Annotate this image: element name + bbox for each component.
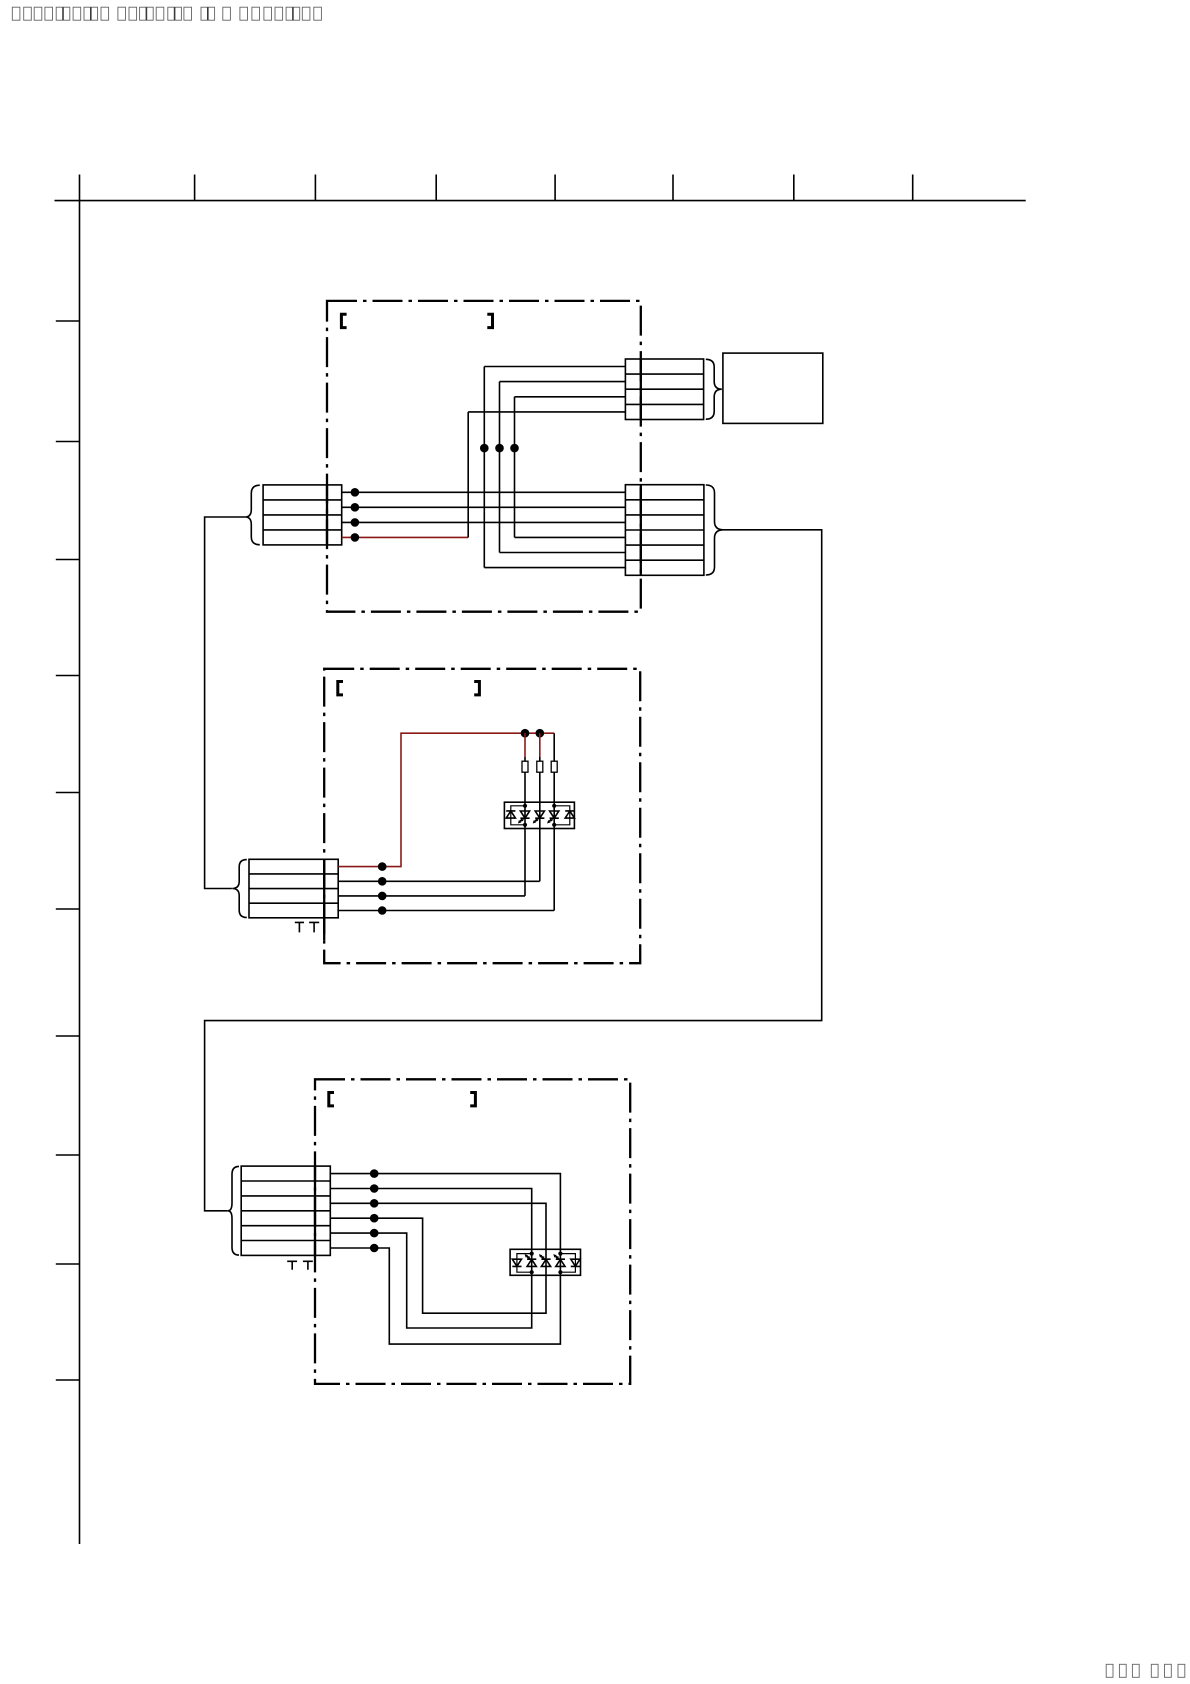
title missing-glyph boxes (top-left header text) bbox=[12, 7, 321, 20]
resistor R2 bbox=[537, 761, 543, 772]
ground T2 under CN5 bbox=[303, 1261, 313, 1269]
diode D2 (up, on right loop) bbox=[565, 811, 574, 818]
wires resistors down to LED block bbox=[525, 772, 554, 802]
block 2 dash-dot border bbox=[324, 669, 640, 963]
node dot on C bbox=[495, 444, 504, 453]
connector CN5 (block 3 left) bbox=[241, 1166, 330, 1255]
diode D3 (down, on left loop) bbox=[512, 1259, 521, 1266]
block 2 left lenticular bracket bbox=[338, 682, 343, 695]
block 2 right lenticular bracket bbox=[474, 682, 479, 695]
wire CN2 row1 horizontal bbox=[484, 366, 625, 368]
wire CN4 row2 to column c2 bbox=[338, 829, 540, 882]
page footer missing-glyph boxes (bottom-right) bbox=[1106, 1664, 1185, 1677]
wire CN5 row4 to column c2 bottom bbox=[330, 1218, 546, 1313]
LED array box (block 2) bbox=[504, 802, 574, 828]
node dot row3 bbox=[351, 518, 360, 527]
wire from CN1 brace to block 2 bbox=[205, 517, 246, 889]
ground T1 under CN5 bbox=[287, 1261, 297, 1269]
wire to CN3 cell6 bbox=[484, 567, 625, 569]
loop junction dots bbox=[530, 1252, 534, 1256]
wire CN5 row1 to column c3 top bbox=[330, 1174, 560, 1250]
brace right of CN3 bbox=[706, 485, 724, 575]
LED2 arrows bbox=[535, 818, 539, 821]
top ruler line bbox=[55, 200, 1026, 202]
ground T2 under CN4 bbox=[309, 922, 319, 932]
black stub ends above resistors bbox=[525, 733, 554, 761]
wire CN5 row3 to column c2 top bbox=[330, 1203, 546, 1249]
node dot CN5 row2 bbox=[370, 1184, 379, 1193]
right parallel-diode loop bbox=[560, 1254, 575, 1273]
connector CN1 (block 1 left) bbox=[263, 485, 342, 545]
block 3 right lenticular bracket bbox=[470, 1093, 475, 1106]
wire CN1 row3 to CN3 cell3 bbox=[342, 521, 626, 523]
node dot on red bus c2 bbox=[536, 729, 545, 738]
connector CN2 (block 1 right top) bbox=[625, 359, 703, 420]
node dot on B bbox=[480, 444, 489, 453]
top ruler ticks bbox=[195, 175, 913, 201]
wire vertical D (CN2 row3 down to CN3 cell4) bbox=[514, 397, 516, 538]
wire CN2 row3 horizontal bbox=[515, 396, 626, 398]
block 1 dash-dot border bbox=[327, 301, 641, 612]
box U1 (top right) bbox=[723, 353, 823, 423]
node dot CN5 row4 bbox=[370, 1214, 379, 1223]
wire CN5 row5 to column c1 bottom bbox=[330, 1233, 531, 1328]
node dot row4 bbox=[351, 533, 360, 542]
brace left of CN4 bbox=[232, 860, 247, 918]
brace left of CN1 bbox=[245, 485, 260, 545]
wire CN4 row3 to column c1 bbox=[338, 829, 525, 896]
LED array box (block 3) bbox=[510, 1249, 580, 1275]
block 2 border solid overlay through connector bbox=[323, 859, 325, 940]
left ruler line bbox=[79, 175, 81, 1545]
node dot CN4 row1 bbox=[378, 862, 387, 871]
LED2 (down) bbox=[535, 811, 544, 818]
column wires through LED box bbox=[525, 802, 554, 828]
block 1 left lenticular bracket bbox=[341, 314, 346, 327]
wire CN1 row2 to CN3 cell2 bbox=[342, 506, 626, 508]
connector CN3 (block 1 right bottom) bbox=[625, 485, 704, 576]
wire vertical B (CN2 row1 down to CN3 cell6) bbox=[483, 367, 485, 568]
brace left of CN5 bbox=[228, 1166, 239, 1255]
brace right of CN2 bbox=[706, 359, 722, 419]
LED4 arrows bbox=[527, 1256, 531, 1259]
wire CN5 row6 to column c3 bottom bbox=[330, 1248, 560, 1344]
column wires through LED box bbox=[532, 1249, 561, 1275]
LED5 arrows bbox=[541, 1256, 545, 1259]
wire CN5 row2 to column c1 top bbox=[330, 1189, 531, 1250]
red stub to resistor R1 bbox=[524, 733, 526, 757]
LED1 arrows bbox=[520, 818, 524, 821]
node dot on red bus c1 bbox=[521, 729, 530, 738]
right parallel-diode loop bbox=[554, 806, 570, 825]
wire CN2 row2 horizontal bbox=[500, 381, 626, 383]
block 3 border solid overlay through connector bbox=[314, 1166, 316, 1255]
ground T1 under CN4 bbox=[295, 922, 304, 932]
node dot CN5 row3 bbox=[370, 1199, 379, 1208]
block 1 border solid overlay through left connector bbox=[326, 485, 328, 545]
node dot CN4 row3 bbox=[378, 892, 387, 901]
diode D1 (up, on left loop) bbox=[506, 811, 515, 818]
LED3 arrows bbox=[549, 818, 553, 821]
block 3 left lenticular bracket bbox=[329, 1093, 334, 1106]
wire vertical C (CN2 row2 down to CN3 cell5) bbox=[499, 382, 501, 553]
wire to CN3 cell4 bbox=[515, 536, 626, 538]
wire CN4 row4 to column c3 bbox=[338, 829, 554, 911]
node dot CN4 row4 bbox=[378, 906, 387, 915]
wire CN1 row1 to CN3 cell1 bbox=[342, 491, 626, 493]
LED5 (up) bbox=[541, 1259, 550, 1266]
wire to CN3 cell5 bbox=[500, 552, 626, 554]
block 1 right lenticular bracket bbox=[487, 314, 492, 327]
wire CN2 row4 horizontal bbox=[468, 411, 625, 413]
block 1 border solid overlay through right bottom connector bbox=[640, 485, 642, 576]
LED6 (up) bbox=[556, 1259, 565, 1266]
left parallel-diode loop bbox=[517, 1254, 532, 1273]
node dot CN5 row1 bbox=[370, 1169, 379, 1178]
LED4 (up) bbox=[527, 1259, 536, 1266]
LED1 (down) bbox=[520, 811, 529, 818]
red stub to resistor R2 bbox=[539, 733, 541, 757]
node dot row1 bbox=[351, 488, 360, 497]
connector CN4 (block 2 left) bbox=[249, 859, 338, 918]
node dot on D bbox=[510, 444, 519, 453]
block 3 dash-dot border bbox=[315, 1079, 630, 1384]
LED3 (down) bbox=[550, 811, 559, 818]
node dot CN4 row2 bbox=[378, 877, 387, 886]
left ruler ticks bbox=[56, 321, 80, 1380]
node dot CN5 row5 bbox=[370, 1229, 379, 1238]
node dot CN5 row6 bbox=[370, 1244, 379, 1253]
red wire CN4 row1 up and across bbox=[338, 733, 554, 866]
wire vertical A (CN2 row4 down to red row) bbox=[467, 412, 469, 538]
block 1 border solid overlay through right top connector bbox=[640, 359, 642, 420]
diode D4 (down, on right loop) bbox=[571, 1259, 580, 1266]
resistor R1 bbox=[522, 761, 528, 772]
LED6 arrows bbox=[556, 1256, 560, 1259]
red wire CN1 row4 bbox=[342, 536, 469, 538]
node dot row2 bbox=[351, 503, 360, 512]
long wire from CN3 brace to block 3 bbox=[205, 530, 822, 1211]
left parallel-diode loop bbox=[511, 806, 525, 825]
loop junction dots bbox=[523, 804, 527, 808]
resistor R3 bbox=[551, 761, 557, 772]
